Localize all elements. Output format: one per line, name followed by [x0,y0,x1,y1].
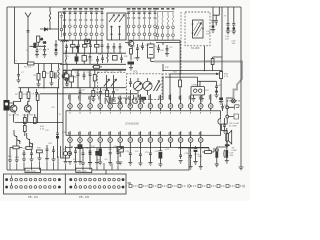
wire R7 to Q3 [28,98,29,105]
bus wire y63 [15,63,63,65]
switch S1 line 5 [85,12,88,41]
capacitor C45 under pin27 [180,147,182,152]
coil L3 [107,54,108,63]
capacitor C31 right of IC [221,104,224,112]
variable resistor VR3 under pin21 [119,146,121,149]
IC U1 top pin 8 [138,94,143,113]
IC U1 bottom pin 16 [68,131,73,147]
capacitor C59 with dark bar and ground [55,40,58,49]
coil L8 horizontal [61,40,69,43]
pot wiper arrows [154,81,161,92]
resistor R6 [20,88,22,92]
capacitor C1 on antenna lead [27,31,30,33]
ground x17 bottom left [15,149,19,163]
resistor R25 horizontal [205,151,212,154]
contact circle inside T1 [60,28,63,31]
electrolytic C33 [194,146,198,149]
capacitor C11 [96,56,99,64]
wire IC pin16 to left [61,146,73,158]
ceramic filter CF1 box [191,87,205,96]
ground under pin27 [179,161,183,164]
capacitor C12 [101,55,104,64]
electrolytic C44 under pin25 [159,147,161,150]
IC U1 top pin 3 [88,96,93,114]
switch arrow 3 [119,15,125,23]
resistor R13 [26,147,32,150]
svg-text:R5 152: R5 152 [86,60,93,62]
box component B6 [93,75,96,81]
ground for cap pair A [226,30,230,34]
coil L2 [58,64,59,88]
ground under R17 [91,97,95,102]
IF transformer T1 box [59,12,65,40]
transistor Q1 converter [62,73,69,80]
ground under C21 [112,96,116,101]
bus wire y40 under cluster2 [128,39,157,41]
component box B3 [23,126,26,132]
capacitor C32 right of IC lower [223,118,227,133]
bus wire y87 [19,87,59,89]
node dot antenna/bus [27,63,28,64]
switch matrix box SW [107,13,126,40]
IC U1 bottom pin 17 [78,131,83,147]
coil L7 switch line [172,12,173,41]
ground under pin21 [118,162,122,165]
transistor Q6 circled [128,41,134,47]
resistor R4 [43,64,45,72]
svg-text:PB - 102: PB - 102 [79,195,90,199]
capacitor C28 left of pots [129,78,132,95]
crystal X2 [85,39,90,43]
switch S1 line 4 [79,12,82,41]
IC U1 top pin 6 [118,96,123,114]
IC U1 bottom pin 18 [88,131,93,147]
trimmer row cap g [101,40,104,53]
trimmer row box d [83,45,88,48]
svg-text:TA-200: TA-200 [191,46,200,50]
wire from R1 to bus [37,42,39,46]
wires left column down [10,106,38,160]
potentiometer VR2 [143,81,152,90]
capacitor C39 under pin20 [109,147,111,149]
trimmer row box f [95,45,100,48]
bus under coil cluster3 [155,40,180,74]
electrolytic C36b under pin17 [78,144,83,149]
capacitor C36 under pin16 [69,147,71,149]
resistor R7 with ground [28,88,30,92]
capacitor C46 under pin28 [190,147,192,152]
dark cap C57 [76,47,79,54]
capacitor C3 with ground [35,48,39,58]
wire pin26 down [170,142,172,147]
ground pad under speaker [225,144,230,146]
black cap C27 [140,97,146,100]
resistor R18 below bus [106,91,109,97]
top right cap pair A [227,7,230,28]
connector pins row1 right group [70,178,124,181]
speaker SP1 [226,134,229,141]
capacitor C24 [141,43,144,51]
ground under pin24 [149,157,151,163]
transistor Q3 circled [24,105,31,112]
antenna ANT1 [25,13,31,64]
component box B1 [24,114,26,118]
capacitor C26 with ground [165,45,169,56]
switch contact dots [111,26,113,28]
capacitor C14 [77,70,80,88]
ground under C34 [215,164,219,167]
svg-text:(PB-102): (PB-102) [77,170,87,173]
IC U1 bottom pin 21 [118,131,123,147]
capacitor C49 left column [23,150,26,159]
connector pins row2 left group [6,183,61,189]
resistor R20 vertical [179,80,182,87]
crystal X1 label [30,45,47,47]
switch S2 line 4 [143,12,146,41]
capacitor C53 mid bottom [88,148,92,165]
capacitor C25 [157,45,160,53]
dashed mechanical link horizontal to pots [162,73,181,75]
capacitor C29 black on x222 [220,84,222,98]
node dot bus [162,70,163,71]
bus wire y52 [63,52,126,54]
IC U1 bottom pin 23 [138,131,143,147]
gray highlighted signal path [154,62,242,108]
frame top edge [7,6,241,8]
node dots bus y122 [24,122,25,123]
tuning gang VC1 body [193,20,204,38]
box component B4 [113,56,118,61]
IC U1 top pin 4 [98,95,103,113]
IC U1 bottom pin 25 [158,131,163,147]
resistor R12 [13,146,19,149]
dashed mechanical link vertical [180,12,182,74]
trimmer row cap i [113,43,116,53]
trimmer row cap j [119,43,122,53]
svg-text:+B: +B [40,39,43,41]
label box PB-right on bottom edge [76,168,92,172]
connector divider [64,174,66,194]
tuning gang pin dots [192,23,194,25]
capacitor C52 [52,146,55,155]
earphone jack EJ contacts [226,106,229,109]
wire inner left vertical [14,7,16,64]
wire af out bus [178,148,209,151]
svg-text:NEXT|GR: NEXT|GR [104,96,146,106]
capacitor C5 with ground [17,64,21,83]
switch bank cluster 1 [63,12,174,41]
coil L4 switch line [157,12,158,41]
earphone plug symbol [234,105,239,119]
resistor R2 on bus [28,62,35,65]
wire top right riser [221,7,223,72]
IC U1 bottom pin 20 [108,131,113,147]
af bus wire 2 with arrow [170,73,219,74]
resistor R22 on x222 [220,72,223,79]
IC U1 top pin 2 [78,95,83,114]
ground C51 [45,154,49,161]
capacitor C42 under pin23 [139,147,141,151]
ground R28 [38,158,42,161]
frame right edge [240,7,242,165]
capacitor C6 [35,89,38,97]
potentiometer VR1 [133,81,142,90]
af bus wire 3 [165,76,198,78]
tuning gang arrow [194,23,202,36]
capacitor C47 bottomleft [74,148,78,164]
frame bottom edge [7,148,189,170]
label band smudges [63,8,175,14]
bus wire y41 under cluster1 [63,39,103,41]
wire bus y81 right [198,81,217,86]
capacitor C23 [136,44,140,60]
resistor R5 and cap [51,64,53,72]
IC U1 bottom pin 19 [98,131,103,147]
pot terminal wires [138,78,148,97]
ground C52 [52,155,56,162]
capacitor C30 with ground [215,81,218,90]
ground for cap pair B [232,30,236,34]
capacitor C41 under pin22 [129,147,131,150]
IF transformer T2 coil [65,50,66,64]
transistor Q2 circled [10,105,17,112]
svg-text:PB - 101: PB - 101 [28,195,39,199]
ground under pin17 [79,155,81,162]
switch bank labels band [63,8,175,14]
dashed control box VR [127,74,163,100]
wire drops to connector mid [66,163,119,170]
ground under pin18 [89,157,91,163]
electrolytic C34 vertical [216,147,218,149]
top right cap column 2 [213,7,219,26]
trimmer TC1 [104,75,110,90]
tuning lamp PL1 [231,99,235,103]
connector pins row1 left group [6,175,61,181]
switch S1 line 6 [90,12,93,41]
switch S2 line 6 [154,12,157,41]
top right cap column 1 [212,7,215,26]
trimmer row cap h [107,43,110,53]
CF1 legs to ground [192,95,196,101]
electrolytic C35 [224,147,227,158]
IC U1 top pin 15 [208,94,213,113]
capacitor C51 [46,145,49,154]
switch S1 line 7 [95,12,98,41]
wire from pots to IC pins [134,95,144,102]
IC U1 top pin 12 [178,95,183,113]
svg-text:CF455C: CF455C [192,85,201,87]
ground under C33 [193,160,197,164]
trimmer TC2 [111,75,117,90]
bus above top pins [40,93,137,95]
capacitor C21 below bus [112,88,115,96]
capacitor C50 left column [30,150,33,159]
capacitor C16 [89,70,92,88]
capacitor C13 [120,55,123,64]
label box PB-left on bottom edge [25,168,41,172]
connector box CN1 outline [4,174,127,194]
junction dots bus y147 [120,147,121,148]
resistor R11 [37,92,39,94]
switch S1 line 1 [63,12,66,41]
switch S1 line 3 [74,12,77,41]
switch S2 line 2 [132,12,135,41]
transistor Q4 [14,130,20,144]
IC U1 bottom pin 26 [168,131,173,147]
dashed box around tuning unit [185,12,210,46]
IC U1 top pin 13 [188,95,193,114]
switch S2 line 3 [138,12,141,41]
wire speaker return [214,128,227,152]
switch S2 line 5 [148,12,151,41]
dashed line to lamp [227,100,241,102]
top right cap pair B [232,7,235,28]
capacitor C58 [89,53,92,64]
IC U1 top pin 14 [198,96,203,114]
junction dots af bus [179,73,180,74]
ground C50 [30,159,34,162]
component box B2 [34,114,36,118]
connector pins row2 right group [70,183,124,189]
af bus wire 1 [163,70,222,72]
switch S1 line 2 [69,12,72,41]
scattered value labels [8,45,229,161]
capacitor C55 mid bottom [116,148,120,165]
diode D1 [44,28,47,31]
electrolytic C56 dark [76,53,78,56]
electrolytic C22 [128,62,135,65]
switch S1 line 8 [101,12,104,41]
wire drops to connector left [10,156,58,170]
wire R6 to Q2 [14,98,21,105]
capacitor C15 [83,72,86,81]
coil L6 switch line [167,12,168,41]
switch arrow 2 [114,15,120,23]
svg-text:VOL: VOL [133,71,138,74]
frame left edge [6,7,8,170]
wires bottom left cluster [61,148,84,158]
connector arrow mark right [128,182,132,184]
ground under pin23 [139,158,141,163]
svg-text:R2.2k: R2.2k [194,154,199,156]
resistor R16 [94,66,100,69]
ground under pin25 [158,164,162,167]
small circle node B [63,70,66,73]
connector wire stub up at right [105,170,107,174]
wire bus y42 mid2 [125,43,180,46]
capacitor C37 under pin18 [89,147,91,150]
dark cap C54 mid bottom [96,148,98,151]
IC U1 bottom pin 22 [128,131,133,147]
IC right edge bump [218,119,221,125]
svg-text:CXA1019S: CXA1019S [125,122,139,126]
capacitor C43 under pin24 [149,147,151,150]
switch S2 line 1 [127,12,130,41]
transistor Q5 [27,133,33,147]
IF transformer T4 box [148,44,155,58]
bus wire y70 [63,69,126,71]
bus below bottom pins [74,146,209,148]
trimmer row cap c [77,40,80,53]
ground at frame right bottom [239,165,244,170]
wire bus y122 [15,121,64,123]
electrolytic C38 under pin19 [99,147,101,148]
legend row of option boxes [126,184,244,187]
ground under C29 [219,100,223,104]
capacitor inside T1 [60,13,63,20]
capacitor C19 below bus [79,88,82,96]
dashed link wire to trimmers [98,72,127,96]
IC U1 bottom pin 28 [188,131,193,147]
box component B8 [82,56,86,62]
wire from T4 to gray node [151,61,154,63]
IC U1 top pin 11 [168,94,173,113]
ground C49 [22,159,26,162]
resistor R28 bottom left [37,150,43,153]
svg-text:R1 10k: R1 10k [24,67,32,69]
node dot at L1 foot [49,28,50,29]
coil L1 [49,7,51,29]
resistor R17 below bus [92,91,95,97]
IC U1 top pin 1 [68,94,73,113]
ground for cap column 1 [211,28,215,33]
ground under pin22 [129,157,131,163]
svg-text:(PB-101): (PB-101) [26,170,36,173]
trimmer row cap e [89,40,92,53]
ground under C22 [129,68,133,71]
left bottom coil pair L5 [64,152,68,156]
svg-text:Q3 2SC945: Q3 2SC945 [23,115,34,117]
trimmer row box b [71,45,76,48]
ground under pin29 [200,147,202,166]
IC U1 bottom pin 27 [178,131,183,147]
vertical bus left of IF strip [63,41,126,94]
box component B5 [69,76,74,82]
ground under pin16 [68,162,72,165]
ground L5 [64,162,68,165]
resistor R21 at x213 [213,57,222,59]
IC U1 top pin 9 [148,94,153,113]
wire RF node A [40,28,59,30]
ground under pin19 [98,162,102,165]
resistor R3 with ground [38,64,40,74]
trimmer row cap a [65,44,68,54]
switch arrow 1 [109,15,115,23]
wire from tuning gang down [204,46,206,71]
ground under pin28 [190,160,192,166]
op-amp IC U1 body [66,111,221,136]
coil L5 switch line [162,12,163,41]
node dots on y87 [43,87,44,88]
ground under pin20 [109,157,111,163]
speaker feed wires [222,118,228,144]
resistor R19 [130,49,133,55]
IC U1 bottom pin 24 [148,131,153,147]
IC U1 top pin 7 [128,95,133,113]
IC U1 top pin 5 [108,96,113,114]
ground x10 bottom left [8,160,12,163]
node dots bus y87 mid [77,87,78,88]
capacitor C4 with ground [43,45,47,57]
jack J1 [4,100,10,111]
capacitor C20 below bus [99,88,102,96]
capacitor C48 bottomleft [81,150,85,166]
riser from pin to bus1 [163,64,170,100]
resistor R1 [37,36,40,42]
bus wire y87 mid [63,87,126,89]
wire column x63 down [62,94,64,158]
capacitor C9 column x57 [56,88,59,158]
